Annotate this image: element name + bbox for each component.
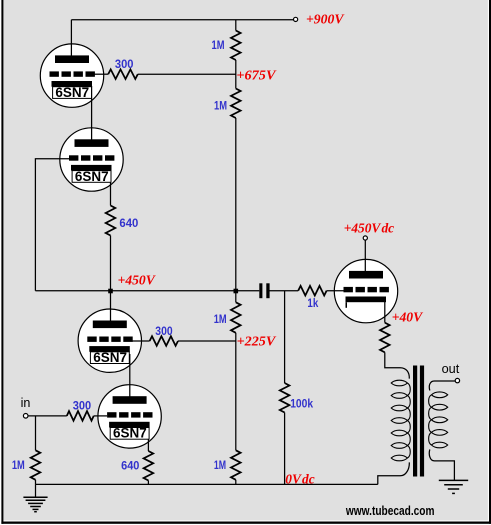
wire: +225V node horizontal — [178, 340, 236, 342]
wire: primary bottom lead to ground rail — [378, 462, 410, 484]
wire: input terminal to 300 — [28, 415, 67, 417]
resistor R5 1k (output grid stopper) — [298, 286, 326, 296]
wire: 100k to ground rail — [284, 413, 286, 485]
frame right border — [489, 0, 491, 524]
wire: ground rail 0V — [36, 483, 378, 485]
wire: left ground stem — [35, 484, 37, 497]
node +450V junction (main rail) — [234, 289, 239, 294]
frame left border — [1, 0, 3, 524]
wire: 1k to output tube grid — [327, 290, 344, 292]
wire: secondary top lead to out terminal — [429, 381, 455, 391]
wire: tube V1 grid lead — [95, 73, 109, 75]
resistor R13 (output cathode, +40V) — [380, 323, 390, 353]
wire: output tube cathode lead — [384, 302, 386, 323]
wire: rail 225V long segment — [235, 333, 237, 451]
svg-text:1M: 1M — [214, 460, 226, 472]
svg-text:640: 640 — [121, 461, 139, 473]
wire: R4 bottom to +450V node — [110, 236, 112, 291]
wire: tube V4 grid lead — [94, 415, 107, 417]
resistor R3 1M (675V-450V) — [231, 89, 241, 119]
resistor R2 300 (V1 grid stopper) — [108, 69, 138, 79]
wire: tube V2 grid lead to +450V rail — [35, 159, 69, 291]
tube V4 label 6SN7 — [110, 428, 149, 440]
svg-text:+450V: +450V — [118, 274, 157, 289]
tube V5 output triode body — [334, 259, 397, 322]
wire: tube V3 plate lead — [110, 291, 112, 322]
ground (secondary) — [439, 479, 468, 481]
resistor R9 1M (225V-0V) — [231, 450, 241, 480]
svg-text:300: 300 — [73, 401, 91, 413]
terminal output — [455, 378, 459, 382]
svg-text:+675V: +675V — [236, 69, 277, 84]
wire: 100k branch vertical upper — [284, 291, 286, 383]
svg-text:1M: 1M — [12, 460, 25, 472]
svg-text:1M: 1M — [214, 314, 227, 326]
wire: tube V4 cathode lead — [147, 436, 149, 451]
svg-text:640: 640 — [119, 218, 138, 230]
wire: output tube plate lead — [364, 240, 366, 272]
ground (input) — [23, 496, 47, 498]
svg-text:+225V: +225V — [237, 335, 277, 350]
svg-text:0V dc: 0V dc — [285, 473, 315, 488]
wire: rail bottom to ground rail — [235, 480, 237, 485]
wire: 1M to ground rail — [35, 480, 37, 485]
tube V2 label 6SN7 — [72, 171, 111, 183]
resistor R6 100k (grid leak) — [280, 383, 290, 413]
svg-text:+450V dc: +450V dc — [344, 221, 395, 236]
tube V3 6SN7 body — [78, 309, 141, 372]
wire: coupling cap to 1k — [270, 290, 299, 292]
svg-text:6SN7: 6SN7 — [113, 426, 147, 441]
frame outer white margins — [0, 0, 1, 525]
resistor R10 300 (input grid stopper) — [67, 411, 94, 421]
wire: +900V top rail — [71, 19, 293, 21]
wire: cathode resistor to transformer primary — [385, 352, 410, 378]
terminal +450Vdc — [363, 236, 367, 240]
tube V2 6SN7 body — [60, 128, 123, 191]
svg-text:www.tubecad.com: www.tubecad.com — [345, 504, 434, 518]
svg-text:300: 300 — [155, 326, 172, 338]
svg-text:6SN7: 6SN7 — [75, 169, 109, 184]
resistor R12 640 (V4 cathode) — [144, 451, 154, 481]
wire: R12 to ground rail — [147, 481, 149, 485]
svg-text:out: out — [442, 361, 460, 376]
wire: rail +450V to 1M below — [235, 291, 237, 303]
tube V1 6SN7 body — [40, 44, 103, 107]
wire: input 1M branch — [35, 416, 37, 450]
wire: tube V3 grid lead — [132, 340, 149, 342]
wire: main rail long segment down to +450V — [235, 118, 237, 291]
wire: tube V2 cathode lead — [110, 170, 112, 206]
wire: secondary bottom lead — [429, 449, 454, 480]
tube V4 6SN7 body — [98, 385, 161, 448]
transformer T1 core — [413, 366, 417, 477]
svg-text:+900V: +900V — [306, 13, 345, 28]
svg-text:100k: 100k — [290, 399, 313, 411]
wire: +675V node horizontal — [138, 73, 236, 75]
transformer T1 secondary winding — [432, 392, 448, 398]
capacitor C1 coupling — [259, 283, 262, 298]
resistor R4 640 (V2 cathode) — [106, 206, 116, 236]
svg-text:300: 300 — [115, 59, 134, 71]
wire: +450V horizontal rail — [35, 290, 259, 292]
svg-text:6SN7: 6SN7 — [55, 85, 89, 100]
resistor R11 1M (input grid leak) — [31, 450, 41, 480]
wire: tube V3 cathode to V4 plate — [129, 354, 131, 397]
svg-text:1k: 1k — [307, 298, 318, 310]
wire: tube V1 plate lead — [70, 20, 72, 56]
tube V3 label 6SN7 — [90, 352, 129, 364]
svg-text:1M: 1M — [212, 40, 225, 52]
wire: main rail top segment — [235, 20, 237, 31]
resistor R7 300 (V3 grid stopper) — [150, 336, 178, 346]
svg-text:+40V: +40V — [392, 310, 424, 325]
node +450V junction (V3 plate) — [108, 289, 113, 294]
svg-text:in: in — [21, 395, 31, 410]
resistor R8 1M (450V-225V) — [231, 302, 241, 333]
svg-text:6SN7: 6SN7 — [93, 350, 127, 365]
transformer T1 primary winding — [391, 380, 407, 386]
resistor R1 1M (900V-675V) — [231, 31, 241, 61]
frame bottom border — [1, 522, 491, 524]
svg-text:1M: 1M — [214, 101, 227, 113]
wire: tube V1 cathode to V2 plate — [91, 86, 93, 140]
wire: rail segment at +675V node — [235, 60, 237, 89]
terminal input — [23, 414, 28, 419]
tube V1 label 6SN7 — [53, 87, 92, 99]
terminal +900V — [294, 17, 298, 21]
